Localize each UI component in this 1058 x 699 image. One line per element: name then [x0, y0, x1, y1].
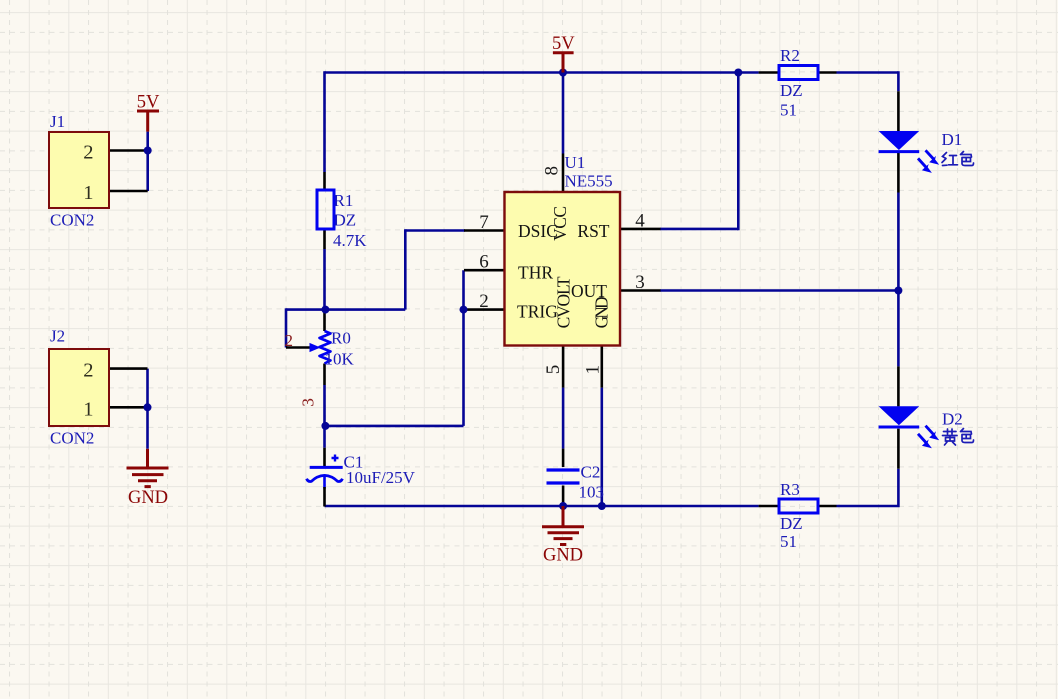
- resistor R1: [317, 190, 367, 250]
- pin R1 top: [323, 172, 326, 190]
- svg-text:R1: R1: [334, 191, 354, 210]
- svg-text:3: 3: [635, 272, 645, 293]
- power 5V symbol above U1: [552, 34, 575, 73]
- wire 5V symbol to pin8: [562, 73, 565, 154]
- svg-text:4.7K: 4.7K: [333, 231, 367, 250]
- wire C1 lower stub: [323, 476, 326, 489]
- wire J1 pins vertical: [146, 132, 149, 191]
- svg-text:6: 6: [479, 252, 489, 273]
- svg-text:VCC: VCC: [550, 206, 570, 241]
- node J1 5V junction: [144, 147, 152, 155]
- pin C2 top: [562, 449, 565, 467]
- ground GND symbol below C2: [542, 506, 584, 566]
- pin R0 bottom: [323, 364, 326, 386]
- node C2 GND junction: [559, 502, 567, 510]
- pin R1 bottom: [323, 229, 326, 249]
- wire OUT pin3 to LED junction: [660, 289, 898, 292]
- pin J1.2: [109, 149, 148, 152]
- wire R1 to R0 junction: [323, 249, 326, 311]
- pin C2 bottom: [562, 486, 565, 507]
- svg-text:1: 1: [83, 399, 93, 421]
- pin R3 right: [818, 505, 837, 508]
- power 5V symbol at J1: [137, 93, 160, 132]
- node 5V rail junction: [559, 69, 567, 77]
- connector J1: [49, 112, 109, 230]
- svg-text:NE555: NE555: [565, 172, 613, 191]
- svg-text:103: 103: [579, 483, 605, 502]
- pin U1.5: [562, 346, 565, 388]
- pin R0 top: [323, 310, 326, 331]
- svg-text:J1: J1: [50, 112, 65, 131]
- svg-text:DZ: DZ: [780, 514, 803, 533]
- svg-text:GND: GND: [592, 296, 612, 328]
- pin R2 left: [759, 71, 779, 74]
- svg-text:7: 7: [479, 212, 489, 233]
- svg-text:51: 51: [780, 101, 797, 120]
- resistor R3: [779, 480, 818, 551]
- svg-text:R0: R0: [331, 329, 351, 348]
- node pin1 GND junction: [598, 502, 606, 510]
- wire left vertical from rail to R1: [323, 71, 326, 172]
- potentiometer R0: [285, 329, 355, 407]
- capacitor C1: [307, 453, 416, 488]
- pin U1.1: [600, 346, 603, 388]
- LED D1: [879, 130, 963, 173]
- pin R0 wiper: [286, 346, 312, 349]
- wire 5V top rail right segment (R2 to corner): [837, 71, 899, 74]
- svg-text:R3: R3: [780, 480, 800, 499]
- svg-text:D1: D1: [942, 130, 963, 149]
- ground GND symbol at J2: [127, 449, 169, 508]
- node J2 GND junction: [144, 403, 152, 411]
- svg-text:DZ: DZ: [334, 211, 357, 230]
- pin J1.1: [109, 190, 148, 193]
- svg-text:TRIG: TRIG: [517, 302, 558, 322]
- svg-text:DZ: DZ: [780, 81, 803, 100]
- wire top-right corner down to D1: [897, 71, 898, 91]
- wire RST vertical to top rail: [737, 73, 740, 231]
- wire pin7 vertical: [404, 229, 407, 309]
- wire RST pin4 horizontal: [660, 228, 738, 231]
- pin C1 top: [323, 448, 326, 467]
- svg-text:2: 2: [83, 360, 93, 382]
- pin D2 cathode: [897, 429, 900, 469]
- svg-text:CON2: CON2: [50, 211, 94, 230]
- svg-text:5: 5: [543, 365, 564, 375]
- pin D1 cathode: [897, 153, 900, 193]
- svg-text:5V: 5V: [552, 34, 575, 54]
- svg-text:4: 4: [635, 211, 645, 232]
- wire pin1 to ground rail: [600, 388, 603, 506]
- wire ground rail bottom: [325, 505, 759, 508]
- node RST rail junction: [734, 69, 742, 77]
- svg-text:1: 1: [83, 182, 93, 204]
- svg-text:CVOLT: CVOLT: [554, 276, 574, 328]
- svg-text:THR: THR: [518, 263, 553, 283]
- connector J2: [49, 327, 109, 448]
- pin R3 left: [759, 505, 779, 508]
- node OUT-LED junction: [894, 287, 902, 295]
- pin U1.6: [464, 269, 505, 272]
- capacitor C2: [547, 463, 605, 502]
- svg-text:2: 2: [479, 291, 489, 312]
- svg-text:D2: D2: [942, 410, 963, 429]
- svg-text:10uF/25V: 10uF/25V: [346, 468, 416, 487]
- wire pin7 horizontal: [405, 229, 465, 232]
- pin D1 anode: [897, 91, 900, 131]
- node R1-R0 junction: [321, 306, 329, 314]
- svg-text:1: 1: [583, 365, 604, 375]
- svg-text:GND: GND: [543, 546, 583, 566]
- svg-text:5V: 5V: [137, 93, 160, 113]
- svg-text:2: 2: [285, 331, 294, 350]
- wire pin6 vertical to bottom link: [462, 270, 465, 426]
- wire D1 cathode to D2 anode vertical: [897, 193, 900, 367]
- wire R0 bottom to C1: [323, 385, 326, 448]
- pin R2 right: [818, 71, 837, 74]
- label 红色 for D1: [942, 152, 974, 166]
- svg-text:51: 51: [780, 532, 797, 551]
- pin J2.2: [109, 367, 148, 370]
- svg-text:C2: C2: [581, 463, 601, 482]
- wire bottom link horizontal: [325, 425, 463, 428]
- pin U1.2: [464, 308, 505, 311]
- label 黄色 for D2: [943, 429, 974, 446]
- wire D2 cathode to bottom corner: [837, 469, 899, 508]
- node TRIG junction: [460, 306, 468, 314]
- svg-text:RST: RST: [577, 221, 609, 241]
- svg-text:GND: GND: [128, 488, 168, 508]
- svg-text:U1: U1: [565, 153, 586, 172]
- resistor R2: [779, 46, 818, 119]
- op-amp U1 NE555 body: [505, 153, 621, 346]
- pin C1 bottom: [323, 487, 326, 507]
- node R0-THR junction: [321, 422, 329, 430]
- pin J2.1: [109, 406, 148, 409]
- wire wiper horizontal at y310: [286, 308, 405, 311]
- pin U1.4: [620, 228, 661, 231]
- pin U1.8: [562, 154, 565, 193]
- svg-text:2: 2: [83, 142, 93, 164]
- svg-text:R2: R2: [780, 46, 800, 65]
- wire wiper vertical drop: [285, 308, 288, 347]
- wire pin5 to C2: [562, 388, 565, 449]
- LED D2: [879, 406, 963, 448]
- svg-text:CON2: CON2: [50, 429, 94, 448]
- pin U1.7: [464, 229, 505, 232]
- pin U1.3: [620, 289, 661, 292]
- pin D2 anode: [897, 366, 900, 406]
- svg-text:8: 8: [542, 166, 563, 176]
- svg-text:3: 3: [299, 398, 318, 407]
- svg-text:J2: J2: [50, 327, 65, 346]
- svg-text:10K: 10K: [325, 350, 355, 369]
- wire J2 pins vertical to GND: [146, 369, 149, 449]
- wire 5V top rail left segment: [325, 71, 759, 74]
